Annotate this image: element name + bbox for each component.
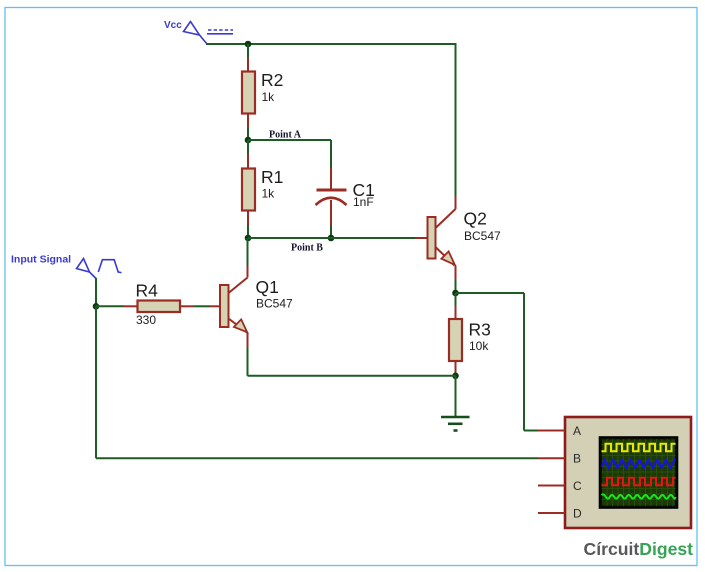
svg-text:C: C — [573, 479, 582, 493]
node junction at Vcc rail / R2 top — [245, 41, 252, 48]
wire Vcc rail top — [206, 43, 456, 45]
svg-text:R1: R1 — [261, 167, 283, 187]
svg-text:Point A: Point A — [269, 130, 302, 141]
svg-text:330: 330 — [136, 313, 156, 327]
pin D — [538, 512, 565, 514]
trace red square wave — [602, 478, 676, 486]
ground — [441, 417, 470, 431]
input source symbol — [77, 259, 122, 279]
wire Point A rail — [248, 139, 331, 141]
wire input symbol to junction — [95, 278, 97, 306]
node Q2 emitter junction — [452, 290, 459, 297]
trace yellow square wave — [602, 444, 676, 452]
svg-text:1k: 1k — [262, 187, 276, 201]
svg-text:Input Signal: Input Signal — [11, 254, 71, 266]
transistor Q1 — [220, 238, 248, 376]
resistor R1 — [242, 140, 255, 238]
svg-text:Q2: Q2 — [464, 209, 487, 229]
oscilloscope body — [565, 417, 691, 528]
svg-text:Vcc: Vcc — [164, 20, 182, 31]
wire scope column vertical — [523, 293, 525, 431]
pin A — [538, 430, 565, 432]
svg-text:1k: 1k — [262, 90, 276, 104]
pin Q2 base — [415, 237, 428, 239]
svg-text:R3: R3 — [469, 320, 491, 340]
wire Q2 collector vertical from rail — [455, 43, 457, 196]
wire emitter junction to scope column — [456, 292, 525, 294]
node Point B junction — [245, 235, 252, 242]
capacitor C1 — [316, 140, 347, 238]
node input junction — [93, 303, 100, 310]
node Point A junction — [245, 137, 252, 144]
svg-text:1nF: 1nF — [353, 195, 374, 209]
wire Q1 emitter to R3 bottom — [248, 375, 456, 377]
svg-text:D: D — [573, 507, 582, 521]
wire input junction down to B row — [95, 306, 97, 458]
wire B row horizontal to scope — [96, 457, 538, 459]
svg-text:Q1: Q1 — [256, 277, 279, 297]
transistor Q2 — [428, 196, 456, 293]
pin C — [538, 485, 565, 487]
svg-text:BC547: BC547 — [464, 229, 501, 243]
svg-text:BC547: BC547 — [256, 297, 293, 311]
resistor R3 — [449, 293, 462, 376]
svg-text:R4: R4 — [136, 281, 159, 301]
oscilloscope screen — [600, 437, 678, 508]
svg-text:R2: R2 — [261, 70, 283, 90]
node R3 bottom junction — [452, 373, 459, 380]
svg-text:CírcuitDigest: CírcuitDigest — [584, 539, 694, 559]
resistor R2 — [242, 44, 255, 140]
trace green sine wave — [602, 494, 676, 498]
power symbol Vcc — [184, 22, 234, 45]
pin B — [538, 457, 565, 459]
resistor R4 — [96, 301, 220, 313]
wire R3 bottom to ground — [455, 376, 457, 417]
svg-text:B: B — [573, 452, 581, 466]
svg-text:A: A — [573, 424, 581, 438]
node C1 bottom junction — [328, 235, 335, 242]
svg-text:Point B: Point B — [291, 243, 323, 254]
wire to scope A pin — [524, 430, 538, 432]
svg-text:10k: 10k — [469, 339, 489, 353]
trace blue wave — [602, 460, 675, 468]
wire Point B rail to Q2 base — [248, 237, 415, 239]
